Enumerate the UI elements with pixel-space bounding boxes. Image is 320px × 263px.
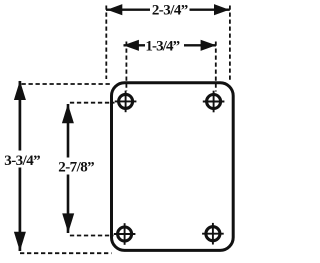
svg-text:1-3/4”: 1-3/4” [145,38,179,54]
extension line (dashed) top of 3-3/4 height [22,83,111,85]
svg-text:2-3/4”: 2-3/4” [152,3,188,19]
bolt hole top-right [203,91,225,113]
svg-text:2-7/8”: 2-7/8” [58,159,94,175]
extension line (dashed) right of 2-3/4 width [229,6,231,82]
extension line (dashed) left of 2-3/4 width [105,6,107,80]
bolt hole top-left [115,91,137,113]
dimension line 3-3/4 left [4,81,42,252]
mounting plate outline [112,83,234,251]
bolt hole bottom-left [114,223,136,245]
bolt hole bottom-right [202,223,224,245]
dimension line 2-7/8 inner left [57,104,96,233]
svg-text:3-3/4”: 3-3/4” [4,153,40,169]
dimension line 2-3/4 top [106,3,230,19]
dimension line 1-3/4 inner top [123,38,216,54]
extension line (dashed) bottom of 2-7/8 height [70,235,114,237]
extension line (dashed) top of 2-7/8 height [70,102,115,104]
extension line (dashed) right of 1-3/4 width [215,42,217,92]
extension line (dashed) bottom of 3-3/4 height [20,252,112,254]
extension line (dashed) left of 1-3/4 width [125,42,127,92]
